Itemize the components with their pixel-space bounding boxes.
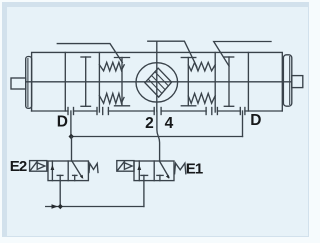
chamber division right [247, 53, 249, 112]
supply flow arrow [52, 204, 59, 209]
spring left bottom [99, 93, 124, 103]
valve E1 exhaust path diagonal [159, 161, 169, 179]
spring right top [188, 62, 215, 71]
svg-text:E2: E2 [10, 158, 27, 175]
valve E2 body [48, 161, 88, 181]
spring anchor wall left [98, 53, 100, 113]
output shaft left [11, 78, 26, 89]
svg-text:D: D [57, 113, 68, 130]
spring left top [99, 62, 124, 71]
wire: E2 pilot down [71, 137, 73, 162]
actuator body [32, 52, 283, 111]
pinion diamond [145, 68, 172, 97]
wire: D bus line [71, 136, 243, 138]
port D left ticks [68, 108, 74, 115]
actuator body bottom wall with port gaps [32, 110, 283, 112]
valve E1 flow arrow [137, 161, 141, 181]
center vertical through pinion [156, 41, 158, 111]
piston left [81, 57, 91, 106]
end cap left [26, 57, 32, 109]
spring seat left [115, 58, 130, 106]
junction dot supply/E2 [58, 204, 63, 210]
wire: D right pipe down [242, 111, 244, 137]
center line [26, 81, 292, 83]
valve E1 blocked port left [141, 175, 148, 180]
output shaft right [292, 76, 303, 88]
valve E1 return spring [175, 163, 186, 174]
valve E2 flow arrow [51, 161, 55, 181]
spring anchor wall right [214, 53, 216, 113]
port opening left-mid ticks [97, 108, 108, 115]
junction dot D/E2 [69, 134, 74, 140]
valve E2 return spring [89, 164, 98, 173]
valve E2 solenoid [30, 161, 47, 172]
valve E2 exhaust path diagonal [72, 161, 83, 179]
port 2-4 ticks [154, 108, 161, 115]
wire: port2 pipe with hop over D bus [157, 111, 160, 161]
valve E2 blocked port right [73, 175, 77, 180]
pinion circle [136, 63, 178, 102]
pinion hatch [148, 72, 168, 94]
port opening right-mid ticks [206, 108, 217, 115]
wire: D left pipe down [70, 111, 72, 137]
svg-text:E1: E1 [186, 160, 203, 177]
wire: E1 supply pipe [143, 181, 145, 207]
valve E2 blocked port left [57, 175, 63, 180]
pilot passage P2 [148, 41, 197, 67]
pilot passage P1 [57, 44, 122, 63]
valve E1 solenoid [117, 161, 134, 172]
pilot passage P3 [214, 42, 271, 67]
svg-text:2: 2 [145, 115, 154, 132]
chamber division left [64, 53, 66, 112]
wire: supply line [46, 206, 144, 208]
spring seat right [181, 58, 196, 106]
svg-text:D: D [250, 112, 261, 129]
valve E1 body [134, 161, 174, 181]
valve E1 blocked port right [157, 175, 163, 180]
end cap right [283, 55, 291, 106]
port D right ticks [240, 108, 245, 115]
piston right [224, 57, 233, 106]
svg-text:4: 4 [165, 115, 174, 132]
spring right bottom [188, 93, 215, 103]
wire: E2 supply pipe [59, 181, 61, 207]
